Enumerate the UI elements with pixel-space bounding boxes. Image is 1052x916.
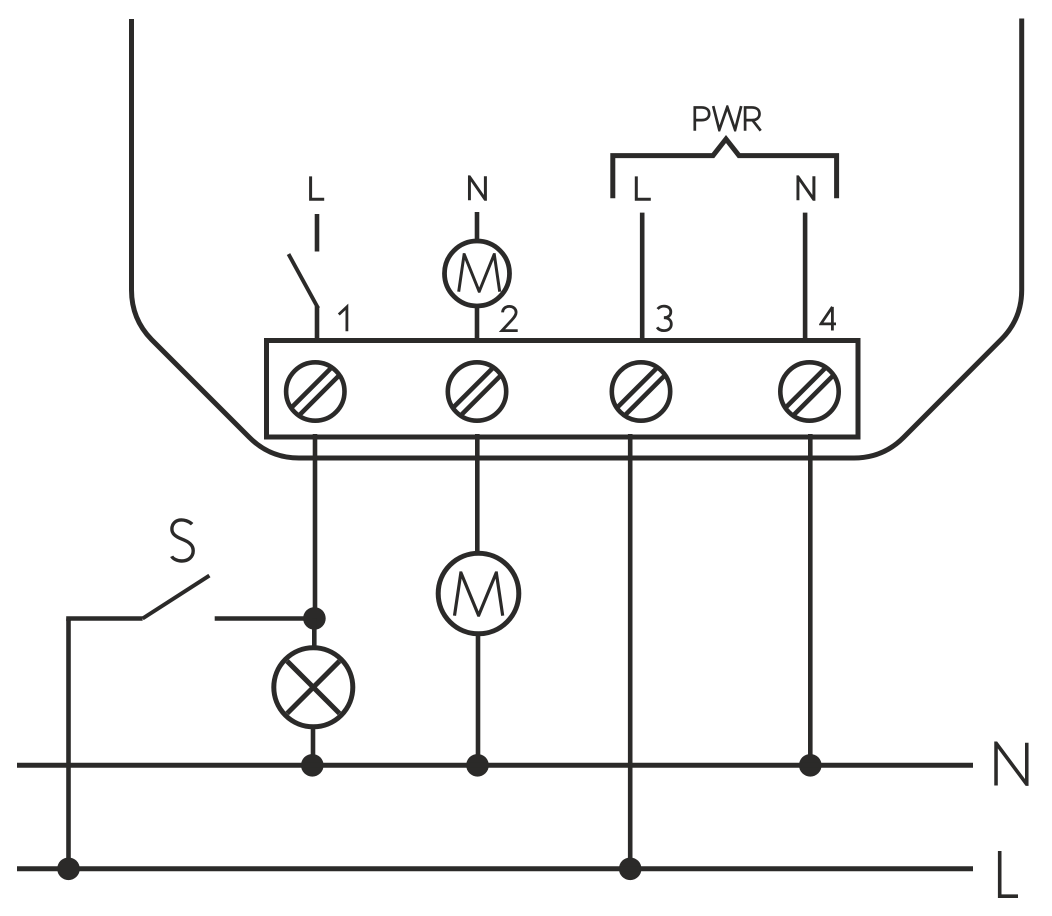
terminal screw 4 [780,362,838,420]
motor M1 [445,241,510,306]
pin label 1 [339,307,347,331]
label N (N bus) [996,743,1027,786]
wire motor M2 to N bus [476,633,481,765]
switch S: wire from left corner [69,619,143,622]
label L (L bus) [1000,851,1018,896]
N bus wire [17,763,973,768]
wire terminal 2 down to motor M2 [475,434,480,554]
label L (PWR) [636,176,651,199]
wire lamp to N bus [311,725,316,765]
switch contact at terminal 1 (blade) [289,254,319,308]
label S [172,520,194,561]
switch S blade [143,576,210,619]
wire N to motor M1 [475,212,480,241]
PWR bracket [613,139,837,198]
wire blade to terminal 1 [315,306,320,343]
wire PWR L to terminal 3 [640,213,645,343]
switch S: wire to junction [215,616,310,621]
lamp [274,648,353,727]
terminal screw 2 [448,362,506,420]
label N (PWR) [798,176,814,200]
motor M2 [438,553,519,634]
wire motor M1 to terminal 2 [475,306,480,343]
junction dot motor M2 / N bus [466,754,489,777]
wire terminal 1 down to junction [313,434,318,619]
pin label 2 [502,306,518,330]
wire junction to lamp [312,618,317,649]
wire terminal 4 down to N bus [808,434,813,765]
wire PWR N to terminal 4 [803,213,808,343]
wire L stub above switch [315,214,320,252]
junction dot S branch / L bus [57,858,80,881]
junction dot terminal 3 / L bus [619,858,642,881]
pin label 4 [821,307,836,331]
wire left vertical (S to L bus) [66,619,71,869]
label N above terminal 2 [469,176,485,200]
enclosure outline [132,19,1022,459]
terminal screw 3 [612,362,670,420]
wire terminal 3 down to L bus [628,434,633,869]
terminal screw 1 [286,362,344,420]
junction dot lamp / N bus [301,754,324,777]
junction dot switch/lamp [303,607,326,630]
junction dot terminal 4 / N bus [799,754,822,777]
L bus wire [17,866,973,871]
label L above terminal 1 [311,176,325,199]
PWR label [695,106,761,131]
pin label 3 [657,306,671,331]
terminal block box [267,341,859,438]
